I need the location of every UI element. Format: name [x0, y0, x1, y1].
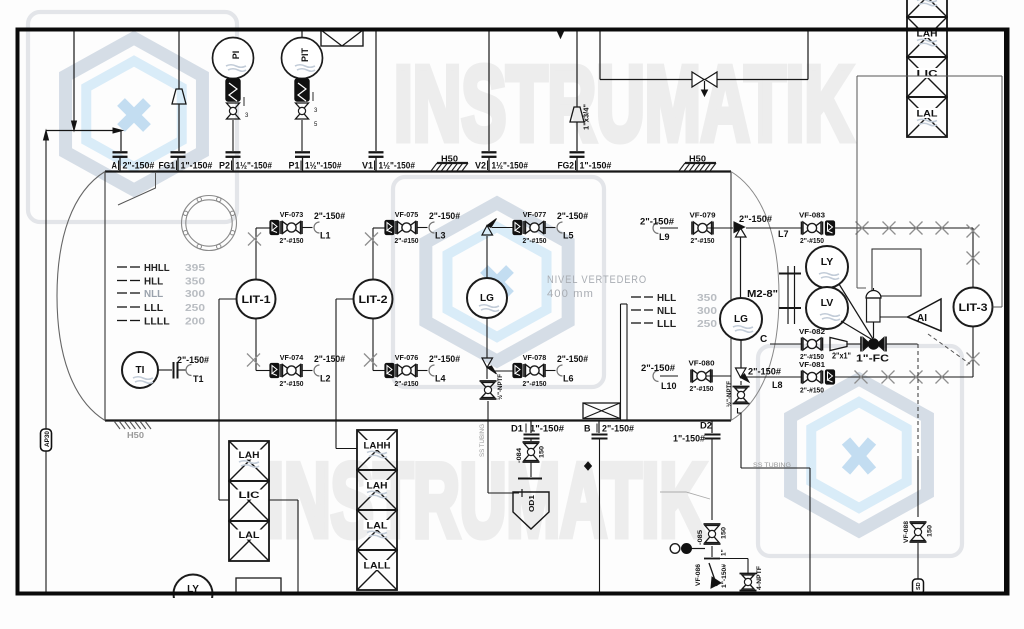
wire ladder LIC to bottom	[269, 500, 298, 592]
stub hook L4	[429, 354, 460, 384]
svg-text:AP30: AP30	[45, 430, 51, 447]
svg-text:2"-150#: 2"-150#	[314, 211, 345, 221]
nozzle A	[112, 152, 155, 171]
level marks right	[631, 292, 717, 330]
wire LIT-1 to ladder LIC	[219, 299, 237, 500]
instrument PIT	[282, 31, 323, 79]
svg-text:1"-150#: 1"-150#	[181, 161, 213, 171]
valve VF-081	[799, 360, 835, 395]
svg-text:LAH: LAH	[239, 450, 260, 461]
wire L9 line	[660, 227, 733, 229]
label M2-8	[747, 289, 778, 300]
svg-text:2"-150#: 2"-150#	[602, 424, 634, 434]
leader line gray	[660, 492, 710, 499]
svg-text:LIC: LIC	[917, 69, 938, 80]
svg-text:L6: L6	[563, 374, 574, 384]
valve VF-084	[516, 439, 546, 477]
instrument LY	[806, 246, 848, 288]
svg-text:1½"-150#: 1½"-150#	[492, 161, 528, 171]
wire VF-074 outlet	[303, 370, 313, 372]
svg-text:L4: L4	[435, 374, 446, 384]
vessel right head	[731, 172, 779, 421]
watermark INSTRUMATIK top	[394, 45, 853, 163]
watermark logo box bottom-right	[758, 346, 962, 556]
crossing marks L7	[856, 222, 980, 265]
svg-text:OD1: OD1	[527, 495, 536, 512]
PI tag and valve	[226, 79, 249, 151]
wire LIT-2 bottom	[373, 318, 387, 371]
stub hook L3	[429, 211, 460, 241]
svg-text:2"-150#: 2"-150#	[177, 355, 209, 365]
svg-text:2"-#150: 2"-#150	[691, 236, 715, 245]
svg-text:SS TUBING: SS TUBING	[479, 424, 486, 457]
wire LIT-3 to LIC loop	[993, 76, 1003, 307]
PIT tag and valve	[295, 79, 318, 151]
svg-text:1"-150#: 1"-150#	[580, 161, 612, 171]
nozzle D2	[673, 421, 721, 521]
svg-text:D1: D1	[511, 424, 523, 434]
vessel shell	[105, 172, 731, 421]
wire L10 line	[660, 375, 731, 377]
svg-text:VF-074: VF-074	[280, 353, 304, 362]
svg-text:LIT-3: LIT-3	[959, 302, 988, 314]
svg-text:2"-150#: 2"-150#	[314, 354, 345, 364]
svg-text:SS TUBING: SS TUBING	[753, 462, 791, 469]
instrument PI	[213, 38, 254, 79]
svg-text:2"-#150: 2"-#150	[280, 379, 304, 388]
svg-text:PI: PI	[231, 51, 241, 60]
tag capsule AP30	[41, 429, 52, 451]
crossing mark LIT-2 bottom	[364, 354, 377, 367]
stub hook L5	[557, 211, 588, 241]
svg-text:LIT-2: LIT-2	[359, 294, 388, 306]
svg-text:LLLL: LLLL	[144, 316, 170, 328]
internal dip pipe	[118, 172, 156, 205]
instrument LG	[467, 278, 507, 318]
svg-text:TI: TI	[136, 365, 145, 376]
watermark logo box top-left	[28, 12, 237, 222]
label NIVEL VERTEDERO	[547, 274, 647, 300]
valve VF-078	[513, 353, 547, 388]
svg-text:150: 150	[539, 446, 546, 458]
svg-text:LV: LV	[821, 297, 834, 309]
nozzle FG1	[159, 152, 213, 171]
wire VF-073 outlet	[303, 227, 313, 229]
svg-text:P2: P2	[219, 161, 230, 171]
svg-text:4-NPTF: 4-NPTF	[756, 566, 763, 590]
svg-text:L2: L2	[320, 374, 331, 384]
svg-text:2"-#150: 2"-#150	[395, 236, 419, 245]
stub hook L2	[314, 354, 345, 384]
vessel left head	[57, 172, 105, 421]
svg-text:V2: V2	[475, 161, 486, 171]
svg-text:2"-150#: 2"-150#	[748, 367, 781, 377]
wire LIT-1 top	[256, 228, 270, 280]
ink mark	[585, 462, 592, 470]
svg-text:LG: LG	[480, 293, 494, 304]
svg-text:-084: -084	[516, 448, 523, 463]
svg-text:VF-086: VF-086	[695, 564, 702, 586]
svg-text:VF-075: VF-075	[395, 210, 419, 219]
svg-text:2"-150#: 2"-150#	[557, 354, 588, 364]
svg-text:1"x3/4": 1"x3/4"	[584, 104, 591, 130]
svg-text:2"-#150: 2"-#150	[690, 384, 714, 393]
vortex breaker at nozzle B	[583, 403, 620, 419]
svg-text:LAL: LAL	[239, 530, 260, 541]
svg-text:P1: P1	[289, 161, 300, 171]
riser FG1 with flame arrestor	[172, 31, 186, 151]
svg-text:T1: T1	[193, 374, 204, 384]
svg-text:HLL: HLL	[144, 276, 164, 288]
svg-text:INSTRUMATIK: INSTRUMATIK	[394, 45, 853, 163]
angle valve VF-086	[695, 563, 728, 588]
valve VF-079	[690, 211, 716, 246]
svg-text:2"-150#: 2"-150#	[557, 211, 588, 221]
svg-text:250: 250	[185, 302, 205, 314]
angle valve LG bottom	[482, 358, 513, 379]
svg-text:M2-8": M2-8"	[747, 289, 778, 300]
svg-text:C: C	[760, 334, 767, 345]
hatch H50 top 1	[431, 155, 468, 172]
svg-text:B: B	[584, 424, 591, 434]
crossing mark LIT-1 top	[248, 233, 261, 246]
wire L8 capillary	[835, 327, 974, 377]
nozzle V1	[362, 152, 415, 171]
svg-text:D2: D2	[700, 421, 712, 431]
svg-text:H50: H50	[689, 155, 707, 164]
svg-text:350: 350	[697, 292, 717, 304]
svg-text:350: 350	[185, 276, 205, 288]
svg-text:2"-#150: 2"-#150	[800, 386, 824, 395]
wire VF-076 outlet	[418, 370, 428, 372]
svg-text:LAL: LAL	[917, 109, 938, 120]
wire LG2 bottom	[740, 340, 742, 368]
svg-text:2"-150#: 2"-150#	[640, 217, 674, 227]
instrument LIT-3	[954, 288, 993, 327]
svg-text:LLL: LLL	[144, 302, 164, 314]
svg-text:NLL: NLL	[144, 288, 164, 300]
annunciator ladder bottom-2	[357, 430, 397, 590]
instrument TI	[122, 352, 158, 388]
svg-text:2"-#150: 2"-#150	[395, 379, 419, 388]
valve 4-NPTF	[720, 559, 763, 591]
instrument LG standpipe	[720, 298, 762, 340]
stub hook L6	[557, 354, 588, 384]
angle valve LG top	[482, 219, 513, 236]
svg-text:VF-079: VF-079	[690, 211, 716, 220]
wire VF-075 outlet	[418, 227, 428, 229]
svg-text:LAL: LAL	[367, 521, 388, 532]
valve VF-077	[513, 210, 547, 245]
svg-text:LIT-1: LIT-1	[242, 294, 271, 306]
drain valve half-NPT right	[725, 381, 750, 413]
svg-text:400 mm: 400 mm	[547, 288, 594, 300]
svg-text:2"-#150: 2"-#150	[280, 236, 304, 245]
valve VF-085	[697, 524, 728, 556]
wire signal to nozzle A	[44, 128, 123, 592]
wire L7	[746, 227, 801, 229]
nozzle T1	[158, 355, 209, 384]
manway	[182, 196, 237, 251]
positioner box	[872, 249, 921, 296]
svg-text:PIT: PIT	[300, 48, 310, 63]
svg-text:½"-NPTF: ½"-NPTF	[725, 381, 733, 407]
svg-text:1½"-150#: 1½"-150#	[379, 161, 415, 171]
wire LIT-1 bottom	[256, 318, 270, 371]
svg-text:2"-150#: 2"-150#	[123, 161, 155, 171]
wire right drain SS tubing	[741, 413, 810, 592]
angle valve LG2 bottom	[736, 368, 802, 382]
svg-text:H50: H50	[127, 431, 145, 440]
riser FG2 with flame arrestor	[570, 31, 591, 151]
riser V1	[375, 31, 377, 151]
wire LIC signal	[857, 76, 1002, 288]
valve VF-073	[270, 210, 304, 245]
svg-text:300: 300	[185, 288, 205, 300]
svg-text:VF-083: VF-083	[799, 211, 825, 220]
hatch H50 bottom left	[114, 421, 151, 440]
nozzle P1	[289, 152, 342, 171]
annunciator ladder top-right	[907, 0, 947, 137]
svg-text:2"-150#: 2"-150#	[739, 214, 772, 224]
drain ports	[670, 544, 705, 554]
wire center drain to funnel	[488, 401, 522, 497]
instrument LY bottom	[174, 575, 213, 614]
svg-text:L8: L8	[772, 380, 783, 390]
stub hook L9	[640, 217, 674, 243]
svg-text:V1: V1	[362, 161, 373, 171]
dashed diagonal signal	[928, 334, 970, 364]
nozzle B	[584, 421, 634, 592]
drain valve half-NPT center	[480, 374, 505, 400]
svg-text:300: 300	[697, 305, 717, 317]
svg-text:-085: -085	[697, 530, 704, 545]
instrument LIT-2	[354, 280, 393, 319]
svg-text:AI: AI	[917, 313, 927, 324]
valve VF-080	[689, 359, 715, 394]
svg-text:250: 250	[697, 318, 717, 330]
nozzle P2	[219, 152, 272, 171]
svg-text:LAHH: LAHH	[364, 441, 391, 452]
svg-text:L10: L10	[661, 381, 677, 391]
nozzle FG2	[558, 152, 612, 171]
valve VF-088	[903, 521, 934, 594]
watermark logo box center	[393, 177, 604, 387]
svg-text:H50: H50	[441, 155, 459, 164]
reducer 2x1	[830, 338, 851, 361]
svg-text:2"x1": 2"x1"	[832, 351, 851, 361]
svg-text:FG2: FG2	[558, 161, 575, 171]
svg-text:2"-150#: 2"-150#	[641, 363, 675, 373]
actuator dome	[866, 288, 881, 338]
valve VF-076	[385, 353, 419, 388]
svg-text:A: A	[112, 161, 118, 171]
control valve 1-FC	[847, 337, 918, 365]
nozzle V2	[475, 152, 528, 171]
svg-text:SD: SD	[916, 582, 922, 590]
svg-text:L7: L7	[778, 229, 789, 239]
stub hook L1	[314, 211, 345, 241]
svg-text:2"-#150: 2"-#150	[523, 236, 547, 245]
svg-text:LALL: LALL	[364, 561, 391, 572]
svg-text:LIC: LIC	[239, 490, 260, 501]
svg-text:INSTRUMATIK: INSTRUMATIK	[266, 443, 706, 559]
svg-text:200: 200	[185, 316, 205, 328]
wire LIT-2 to ladder LAHH	[336, 299, 357, 449]
box	[236, 578, 281, 593]
svg-text:LY: LY	[821, 256, 833, 268]
svg-text:NLL: NLL	[657, 305, 677, 317]
wire below VF-085	[704, 546, 720, 559]
valve VF-074	[270, 353, 304, 388]
svg-text:2"-150#: 2"-150#	[429, 211, 460, 221]
instrument LV	[806, 287, 848, 329]
svg-text:FG1: FG1	[159, 161, 176, 171]
svg-text:1"-150#: 1"-150#	[530, 424, 564, 434]
svg-text:VF-073: VF-073	[280, 210, 304, 219]
svg-text:1"-150#: 1"-150#	[721, 564, 728, 588]
hatch H50 top 2	[679, 155, 716, 172]
svg-text:VF-076: VF-076	[395, 353, 419, 362]
wire VF-078 outlet	[546, 370, 556, 372]
wire L7 capillary	[835, 228, 974, 287]
svg-text:LAH: LAH	[367, 481, 388, 492]
watermark INSTRUMATIK bottom	[266, 443, 706, 559]
svg-text:NIVEL VERTEDERO: NIVEL VERTEDERO	[547, 274, 647, 286]
wire LIT-2 top	[373, 228, 387, 280]
wire VF-077 outlet	[546, 227, 556, 229]
node C	[760, 334, 767, 345]
svg-text:L3: L3	[435, 231, 446, 241]
svg-text:1½"-150#: 1½"-150#	[236, 161, 272, 171]
annunciator ladder bottom-1	[229, 441, 269, 561]
valve VF-083	[799, 211, 835, 246]
svg-text:150: 150	[927, 525, 934, 537]
svg-text:2"-#150: 2"-#150	[523, 379, 547, 388]
svg-text:LG: LG	[734, 314, 748, 325]
svg-text:VF-078: VF-078	[523, 353, 547, 362]
svg-text:L9: L9	[659, 232, 670, 242]
svg-text:HLL: HLL	[657, 292, 677, 304]
svg-text:1½"-150#: 1½"-150#	[305, 161, 341, 171]
svg-text:L5: L5	[563, 231, 574, 241]
svg-text:VF-088: VF-088	[903, 521, 910, 543]
svg-text:2"-#150: 2"-#150	[800, 236, 824, 245]
crossing marks L8	[855, 353, 980, 384]
crossing mark LIT-1 bottom	[247, 354, 260, 367]
svg-text:2"-150#: 2"-150#	[429, 354, 460, 364]
stub hook L10	[641, 363, 677, 391]
wire LIC row across ladder	[905, 75, 949, 77]
vent box	[321, 30, 363, 46]
tick arrow on border	[558, 32, 564, 39]
svg-text:VF-081: VF-081	[799, 360, 825, 369]
svg-text:VF-077: VF-077	[523, 210, 547, 219]
label L8	[748, 367, 783, 391]
svg-text:1"-FC: 1"-FC	[856, 354, 889, 365]
capillary dashed down	[917, 344, 919, 517]
svg-text:L1: L1	[320, 231, 331, 241]
wire LG gauge top	[486, 236, 488, 278]
wire riser to PSV arrow	[72, 31, 77, 131]
svg-text:VF-080: VF-080	[689, 359, 715, 368]
crossing mark LIT-2 top	[365, 233, 378, 246]
valve VF-082	[770, 327, 825, 361]
svg-text:1": 1"	[721, 549, 728, 556]
nozzle D1	[511, 421, 564, 439]
valve VF-075	[385, 210, 419, 245]
spool M2 flanges	[779, 266, 801, 324]
wire LY LV to valve	[839, 284, 873, 339]
riser V2	[488, 31, 490, 151]
instrument LIT-1	[237, 280, 276, 319]
svg-text:½"-NPTF: ½"-NPTF	[496, 374, 504, 400]
svg-text:1"-150#: 1"-150#	[673, 434, 705, 444]
weir plate	[621, 304, 628, 420]
svg-text:LLL: LLL	[657, 318, 677, 330]
bypass line with valve	[600, 31, 808, 96]
svg-text:HHLL: HHLL	[144, 262, 170, 274]
wire standpipe	[740, 237, 742, 298]
arrow AI	[880, 299, 941, 331]
funnel OD1	[513, 479, 549, 530]
wire LG gauge bottom	[486, 318, 488, 358]
level marks left	[117, 262, 205, 328]
standpipe top valve	[734, 214, 772, 237]
svg-text:150: 150	[721, 527, 728, 539]
svg-text:395: 395	[185, 262, 205, 274]
